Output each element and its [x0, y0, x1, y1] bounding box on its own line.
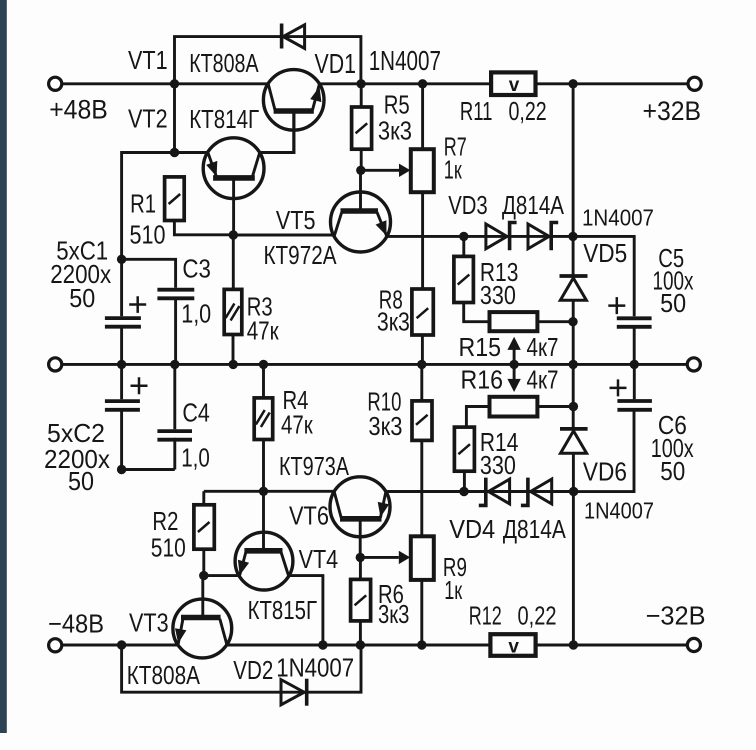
label 2200x (C2) — [44, 444, 110, 474]
transistor VT4 KT815G — [235, 491, 293, 590]
label R2 — [152, 506, 178, 536]
middle common rail — [62, 363, 688, 366]
label KT972A — [264, 240, 338, 270]
label VT2 — [128, 103, 168, 133]
label 50 (C6) — [660, 456, 685, 486]
label R9 — [443, 552, 467, 582]
svg-text:Д814А: Д814А — [503, 514, 567, 544]
label 47k (R4) — [281, 409, 313, 439]
label 3k3 (R5) — [378, 116, 412, 146]
wiper arrow of R16 — [507, 364, 520, 392]
label 5xC1 — [56, 235, 108, 265]
wire R2 bottom to VT4 emitter — [204, 574, 240, 577]
label R10 — [367, 386, 401, 416]
potentiometer R15 — [490, 312, 574, 331]
svg-text:50: 50 — [660, 288, 686, 318]
label VD4 — [449, 514, 495, 544]
label KT808A (VT1) — [189, 48, 259, 78]
svg-text:VD6: VD6 — [583, 457, 627, 487]
svg-text:VT3: VT3 — [129, 607, 169, 637]
svg-text:+48В: +48В — [49, 95, 108, 125]
svg-text:47к: 47к — [247, 316, 279, 346]
terminal +48V input — [49, 77, 62, 90]
wire VT2 collector to VT1 base — [260, 111, 295, 153]
svg-text:330: 330 — [480, 280, 516, 310]
transistor VT5 KT972A — [331, 170, 391, 252]
resistor R14 — [454, 427, 474, 491]
svg-text:47к: 47к — [281, 409, 313, 439]
junction dots middle rail — [117, 360, 639, 369]
svg-text:1к: 1к — [444, 155, 462, 185]
svg-text:С3: С3 — [182, 254, 211, 284]
svg-text:R16: R16 — [461, 365, 504, 395]
svg-text:КТ814Г: КТ814Г — [189, 104, 259, 134]
svg-text:VD2: VD2 — [233, 655, 273, 685]
resistor R6 — [351, 557, 371, 645]
label 50 (C2) — [68, 466, 94, 496]
transistor VT3 KT808A — [173, 576, 232, 658]
label R14 — [480, 427, 519, 457]
label KT808A (VT3) — [127, 660, 201, 690]
svg-text:+32В: +32В — [643, 96, 702, 126]
wire VT6 emitter to VD4 line — [386, 490, 574, 493]
label 0,22 (R11) — [509, 96, 547, 126]
svg-text:КТ972А: КТ972А — [264, 240, 338, 270]
wire R11 to +32V terminal — [535, 82, 688, 85]
wiper arrow of R15 — [507, 337, 520, 365]
label C6 — [658, 410, 687, 440]
label R16 — [461, 365, 504, 395]
svg-text:510: 510 — [130, 220, 166, 250]
label R5 — [384, 90, 410, 120]
resistor R5 — [352, 84, 372, 171]
junction dot R5 bottom / VT5 base — [356, 166, 365, 175]
svg-text:КТ808А: КТ808А — [189, 48, 259, 78]
junction dot R16 right — [569, 402, 578, 411]
svg-text:1N4007: 1N4007 — [582, 205, 654, 231]
resistor R3 — [224, 235, 242, 364]
svg-text:R12: R12 — [469, 601, 502, 631]
label R6 — [378, 579, 404, 609]
potentiometer R16 — [466, 397, 573, 427]
capacitor C2 (5xC2) — [105, 364, 148, 469]
svg-text:R1: R1 — [130, 189, 156, 219]
junction dot VT2 base node — [229, 230, 238, 239]
junction dot VT2 emitter node — [170, 148, 179, 157]
svg-text:VT2: VT2 — [128, 103, 168, 133]
transistor VT6 KT973A — [330, 477, 390, 558]
label 1,0 (C4) — [181, 442, 210, 472]
diode VD5 — [560, 84, 588, 429]
svg-text:VT4: VT4 — [299, 544, 339, 574]
capacitor C1 (5xC1) — [105, 259, 146, 364]
svg-text:−48В: −48В — [48, 609, 104, 639]
zener VD4 pair D814A — [479, 478, 552, 506]
label R3 — [247, 292, 273, 322]
wire +48V rail left segment — [62, 82, 268, 85]
capacitor C4 — [122, 364, 192, 469]
label 1N4007 (VD1) — [369, 45, 441, 76]
svg-text:VT6: VT6 — [289, 501, 329, 531]
junction dot VD3 right — [568, 232, 577, 241]
terminal common right — [687, 358, 700, 371]
svg-text:1N4007: 1N4007 — [584, 498, 654, 524]
label 3k3 (R6) — [378, 599, 409, 629]
label 1N4007 (VD5) — [582, 205, 654, 231]
label 4k7 (R16) — [527, 365, 559, 395]
svg-text:КТ973А: КТ973А — [279, 451, 350, 481]
label C4 — [182, 398, 209, 428]
label VT4 — [299, 544, 339, 574]
svg-text:3к3: 3к3 — [377, 307, 410, 337]
wiper arrow of R9 — [360, 551, 410, 564]
svg-text:VD3: VD3 — [448, 190, 488, 220]
resistor R13 — [454, 236, 490, 321]
label 100x (C6) — [651, 433, 694, 463]
svg-text:С4: С4 — [182, 398, 209, 428]
svg-text:3к3: 3к3 — [378, 116, 412, 146]
transistor VT2 KT814G — [203, 138, 264, 235]
label 50 (C5) — [660, 288, 686, 318]
bottom bypass wire — [122, 645, 361, 692]
junction dot VT4 base node — [259, 487, 268, 496]
label VD5 — [583, 238, 627, 268]
label -32B — [646, 601, 706, 631]
resistor R12 0.22 sense — [490, 634, 535, 657]
diode VD1 — [282, 24, 305, 49]
zener VD3 pair D814A — [486, 223, 558, 251]
svg-text:v: v — [509, 75, 520, 96]
svg-text:R15: R15 — [459, 332, 502, 362]
wiper arrow of R7 — [361, 164, 411, 177]
potentiometer R9 — [411, 536, 434, 645]
label VT6 — [289, 501, 329, 531]
label 3k3 (R10) — [368, 411, 402, 441]
svg-text:VT1: VT1 — [128, 45, 168, 75]
svg-text:50: 50 — [660, 456, 685, 486]
label 100x (C5) — [653, 266, 694, 296]
potentiometer R7 — [411, 84, 434, 289]
capacitor C3 — [122, 259, 195, 364]
label KT815G — [248, 595, 317, 625]
wire VT4 collector to bottom rail — [289, 576, 323, 645]
label 5xC2 — [47, 418, 105, 448]
label VT3 — [129, 607, 169, 637]
label 1N4007 (VD6) — [584, 498, 654, 524]
label R12 — [469, 601, 502, 631]
terminal -32V — [687, 638, 700, 651]
label D814A (VD3) — [502, 190, 565, 220]
label VD6 — [583, 457, 627, 487]
svg-text:50: 50 — [68, 466, 94, 496]
label 3k3 (R8) — [377, 307, 410, 337]
label -48B — [48, 609, 104, 639]
svg-text:1,0: 1,0 — [181, 299, 211, 329]
capacitor C6 — [574, 364, 652, 491]
wire R2 node to VT6 collector — [204, 490, 334, 493]
svg-text:50: 50 — [69, 283, 95, 313]
resistor R10 — [412, 364, 432, 536]
svg-text:R11: R11 — [460, 96, 493, 126]
resistor R11 0.22 sense — [491, 72, 535, 95]
label R7 — [444, 132, 467, 162]
label R1 — [130, 189, 156, 219]
svg-text:1к: 1к — [444, 575, 462, 605]
resistor R8 — [412, 289, 433, 364]
junction dots top rail — [170, 79, 578, 88]
svg-text:1N4007: 1N4007 — [276, 652, 354, 682]
svg-text:−32В: −32В — [646, 601, 706, 631]
junction dot VD4 right / C6 — [569, 487, 578, 496]
label +48B — [49, 95, 108, 125]
junction dot R2 bottom node — [199, 571, 208, 580]
resistor R1 — [165, 177, 234, 235]
junction dot C1 top node — [117, 255, 126, 264]
label 330 (R14) — [480, 450, 516, 480]
junction dot R13 top — [459, 232, 468, 241]
bottom rail left segment — [62, 644, 178, 647]
terminal common left — [49, 358, 62, 371]
label 2200x (C1) — [50, 259, 111, 289]
junction dots bottom rail — [117, 640, 578, 649]
label R13 — [480, 257, 519, 287]
terminal -48V input — [49, 639, 62, 652]
svg-text:VD1: VD1 — [315, 48, 357, 79]
svg-text:VD5: VD5 — [583, 238, 627, 268]
label +32B — [643, 96, 702, 126]
capacitor C5 — [573, 236, 652, 364]
label 0,22 (R12) — [518, 601, 557, 631]
label C5 — [658, 243, 684, 273]
label 4k7 (R15) — [527, 332, 559, 362]
label R11 — [460, 96, 493, 126]
resistor R4 — [254, 364, 273, 491]
label VD1 — [315, 48, 357, 79]
label 510 (R2) — [151, 532, 186, 562]
label 1N4007 (VD2) — [276, 652, 354, 682]
wire top bypass with verticals — [175, 37, 361, 84]
label R4 — [283, 385, 309, 415]
label 1k (R9) — [444, 575, 462, 605]
left blue border band — [0, 0, 7, 733]
terminal +32V — [688, 77, 701, 90]
svg-text:v: v — [508, 636, 519, 657]
junction dot C2 bottom node — [117, 465, 126, 474]
label 50 (C1) — [69, 283, 95, 313]
svg-text:Д814А: Д814А — [502, 190, 565, 220]
label R15 — [459, 332, 502, 362]
label 47k (R3) — [247, 316, 279, 346]
diode VD6 — [560, 429, 588, 645]
svg-text:0,22: 0,22 — [518, 601, 557, 631]
junction dot R15 right — [568, 317, 577, 326]
junction dot VT6 base node — [356, 553, 365, 562]
svg-text:КТ815Г: КТ815Г — [248, 595, 317, 625]
label KT814G — [189, 104, 259, 134]
label VD2 — [233, 655, 273, 685]
svg-text:3к3: 3к3 — [378, 599, 409, 629]
label R8 — [379, 285, 403, 315]
svg-text:4к7: 4к7 — [527, 365, 559, 395]
label 1,0 (C3) — [181, 299, 211, 329]
svg-text:КТ808А: КТ808А — [127, 660, 201, 690]
svg-text:510: 510 — [151, 532, 186, 562]
label VT5 — [276, 205, 316, 235]
svg-text:1N4007: 1N4007 — [369, 45, 441, 76]
label VD3 — [448, 190, 488, 220]
svg-text:0,22: 0,22 — [509, 96, 547, 126]
wire VT5 emitter to VD3 line — [387, 235, 573, 238]
label 1k (R7) — [444, 155, 462, 185]
junction dot R14 bottom — [459, 487, 468, 496]
label KT973A — [279, 451, 350, 481]
label C3 — [182, 254, 211, 284]
label 330 (R13) — [480, 280, 516, 310]
diode VD2 — [281, 679, 307, 706]
resistor R2 — [194, 491, 214, 575]
svg-text:330: 330 — [480, 450, 516, 480]
label 510 (R1) — [130, 220, 166, 250]
label VT1 — [128, 45, 168, 75]
bottom rail right segment — [227, 644, 688, 647]
svg-text:VT5: VT5 — [276, 205, 316, 235]
wire VT2 base node to VT5 collector — [233, 234, 334, 237]
transistor VT1 KT808A — [263, 70, 324, 153]
label D814A (VD4) — [503, 514, 567, 544]
svg-text:3к3: 3к3 — [368, 411, 402, 441]
wire +48V rail right of VT1 — [319, 82, 491, 85]
svg-text:1,0: 1,0 — [181, 442, 210, 472]
svg-text:VD4: VD4 — [449, 514, 495, 544]
wire VT2 emitter node column — [122, 84, 208, 259]
svg-text:4к7: 4к7 — [527, 332, 559, 362]
